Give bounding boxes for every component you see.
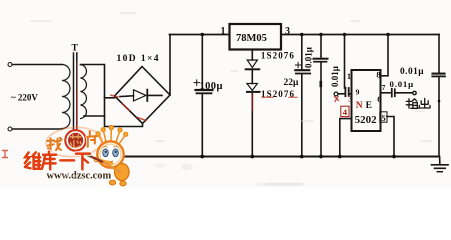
wire AC top: [12, 64, 62, 66]
eyes: [103, 149, 109, 157]
svg-text:6: 6: [377, 94, 381, 104]
svg-text:0.01μ: 0.01μ: [390, 79, 414, 89]
svg-text:0.01μ: 0.01μ: [330, 66, 340, 87]
svg-text:E: E: [366, 101, 372, 111]
watermark mascot: [86, 126, 129, 186]
pen sword: [88, 155, 105, 163]
svg-text:10D 1×4: 10D 1×4: [117, 54, 160, 64]
watermark red text weiku yixia white casing: [25, 152, 90, 170]
body: [115, 163, 129, 180]
svg-text:100μ: 100μ: [200, 81, 223, 92]
svg-text:1: 1: [347, 72, 351, 81]
red pin 4 label: [341, 106, 349, 117]
svg-text:22μ: 22μ: [284, 78, 300, 88]
wire secondary top to bridge: [81, 65, 143, 127]
red artifact marks left of IC: [335, 97, 339, 102]
svg-text:N: N: [356, 101, 363, 111]
faint scan smudges: [181, 164, 193, 171]
svg-text:1: 1: [221, 26, 226, 37]
AC input terminal bottom: [8, 127, 12, 131]
svg-text:9: 9: [356, 87, 360, 96]
wire secondary bottom: [84, 115, 105, 117]
watermark stamp char zhao: [47, 138, 62, 150]
arm: [98, 160, 114, 164]
capacitor 0.01u B: [314, 35, 328, 157]
wire pin 6 output: [381, 92, 392, 94]
capacitor 0.01u C: [334, 35, 351, 97]
bridge rectifier 10D 1x4 diamond: [115, 67, 171, 124]
transformer T primary winding: [62, 65, 70, 129]
svg-text:0.01μ: 0.01μ: [304, 47, 314, 68]
watermark stamp seal: [68, 133, 83, 148]
capacitor 100u electrolytic: [194, 35, 213, 157]
svg-text:1S2076: 1S2076: [261, 51, 295, 61]
wire bridge right vertex to top rail: [169, 35, 171, 96]
wire pin 4 to ground: [340, 119, 352, 157]
bridge internal diode: [120, 90, 162, 101]
ground symbol: [432, 157, 449, 172]
pin label 5: [380, 112, 387, 123]
watermark red text weiku yixia: [25, 152, 90, 170]
head: [97, 141, 123, 167]
wire pin 5 to ground: [387, 117, 394, 157]
svg-text:4: 4: [343, 107, 348, 117]
watermark stamp char pian: [87, 131, 97, 147]
wire top rail right segment: [281, 34, 439, 36]
transformer T secondary winding: [81, 65, 87, 119]
ground junction nodes: [200, 155, 395, 159]
svg-text:www.dzsc.com: www.dzsc.com: [47, 171, 112, 182]
wire pin 8: [381, 35, 389, 76]
watermark stamp outer ellipse: [45, 126, 103, 159]
svg-text:T: T: [72, 44, 79, 54]
diode 1S2076 D2: [247, 84, 260, 157]
junction node cap B: [319, 33, 323, 37]
mouth: [108, 160, 113, 163]
svg-text:78M05: 78M05: [236, 33, 267, 44]
red tint on core: [76, 90, 78, 134]
svg-text:~ 220V: ~ 220V: [11, 93, 38, 103]
svg-text:5202: 5202: [355, 114, 378, 126]
legs: [109, 180, 115, 185]
regulator U1 78M05: [230, 24, 282, 50]
output terminal: [413, 91, 416, 94]
junction node cap C: [343, 33, 347, 37]
watermark stamp seal ring: [65, 130, 86, 151]
wire top rail left segment: [170, 34, 230, 36]
op-amp U2 NE5202: [352, 70, 381, 131]
junction node pin8: [386, 33, 390, 37]
red artifact dashes on bridge: [111, 95, 146, 120]
capacitor 22u electrolytic: [295, 35, 310, 157]
capacitor 0.01u output coupling: [392, 89, 412, 97]
wire ground rail: [118, 156, 439, 158]
crown spikes: [96, 126, 128, 144]
svg-text:5: 5: [381, 113, 385, 123]
junction node 22u: [300, 33, 304, 37]
capacitor 0.01u rightmost: [432, 35, 445, 157]
red artifact under label D2: [262, 96, 297, 98]
wire stub to bridge left vertex: [105, 97, 115, 99]
faint scan noise: [30, 12, 432, 186]
transformer core: [73, 53, 75, 135]
red edge tick: [2, 151, 8, 158]
label output chinese: [406, 98, 430, 108]
junction node at 100u: [201, 33, 205, 37]
watermark stamp char xin: [70, 135, 81, 148]
wire AC bottom: [12, 128, 62, 130]
svg-text:0.01μ: 0.01μ: [400, 67, 424, 77]
svg-text:8: 8: [376, 69, 380, 79]
brows: [103, 146, 108, 149]
svg-text:7: 7: [382, 83, 386, 92]
diode 1S2076 D1: [246, 60, 260, 84]
AC input terminal top: [8, 63, 12, 67]
wire pin 2 stub: [251, 50, 253, 61]
